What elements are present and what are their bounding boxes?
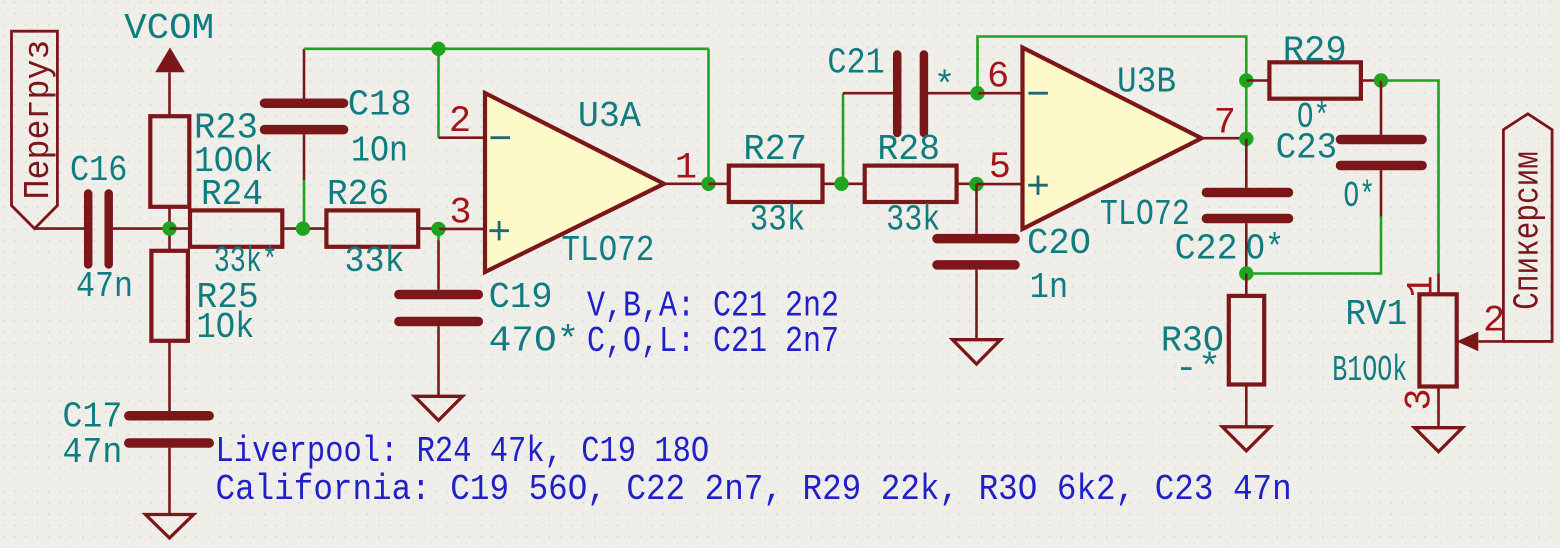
capacitor C21	[827, 43, 955, 134]
wire RV1 to ground	[1437, 387, 1440, 428]
svg-text:C23: C23	[1276, 128, 1338, 169]
pin wire C18 top	[303, 49, 306, 99]
svg-text:TLO72: TLO72	[561, 230, 654, 271]
feedback wire U3B (green)	[978, 37, 1247, 139]
svg-text:33k: 33k	[886, 199, 940, 240]
svg-text:B1OOk: B1OOk	[1332, 350, 1407, 391]
svg-text:3: 3	[1400, 388, 1442, 410]
wire node F to C20	[975, 184, 978, 234]
svg-text:C,O,L: C21 2n7: C,O,L: C21 2n7	[587, 321, 839, 362]
U3A output stub	[664, 183, 709, 186]
capacitor C17	[63, 397, 210, 473]
wire R26 to node C	[418, 227, 438, 230]
wire C17 to ground	[168, 448, 171, 515]
ground under C20	[953, 340, 1001, 364]
node C junction	[431, 222, 445, 236]
svg-text:2: 2	[1483, 301, 1505, 343]
svg-text:VCOM: VCOM	[124, 8, 214, 49]
wire node D up to C21 (green)	[842, 93, 844, 184]
svg-text:47O*: 47O*	[489, 321, 580, 362]
wire node G to C22	[1245, 139, 1248, 188]
capacitor C18	[265, 84, 412, 171]
wire node I to RV1 (green)	[1381, 81, 1439, 274]
svg-text:C22: C22	[1175, 229, 1238, 270]
resistor R30	[1161, 296, 1264, 389]
op-amp U3B	[1023, 48, 1202, 236]
node B junction	[296, 221, 310, 235]
wire C23 to bottom rail (green)	[1246, 217, 1381, 274]
wire R30 to ground	[1245, 385, 1248, 427]
svg-text:1Ok: 1Ok	[197, 307, 255, 348]
wire C20 to ground	[975, 270, 978, 340]
node F junction	[969, 177, 983, 191]
capacitor C20	[937, 223, 1091, 308]
wire C22 to node J	[1245, 223, 1248, 273]
wire node I to C23	[1380, 81, 1383, 135]
svg-text:47n: 47n	[76, 266, 133, 307]
resistor R27	[729, 129, 823, 240]
ground under R30	[1222, 427, 1270, 451]
ground under RV1	[1415, 428, 1463, 452]
pin 5 stub	[977, 183, 1023, 186]
resistor R26	[326, 174, 418, 282]
ground under C17	[146, 515, 194, 539]
wire C18 to node B (green)	[303, 180, 306, 229]
resistor R28	[865, 129, 957, 240]
feedback wire top (green)	[304, 47, 709, 50]
U3B output stub	[1202, 137, 1247, 140]
svg-text:2: 2	[449, 101, 471, 143]
svg-text:O*: O*	[1343, 176, 1375, 217]
svg-text:R29: R29	[1283, 31, 1347, 72]
svg-text:O*: O*	[1246, 229, 1284, 270]
wire C19 to ground	[437, 326, 440, 396]
wire feedback down to output (green)	[707, 49, 710, 184]
wire node A to R24	[170, 227, 191, 230]
power symbol VCOM	[124, 8, 214, 116]
svg-text:Спикерсим: Спикерсим	[1508, 151, 1549, 310]
svg-text:3: 3	[449, 192, 471, 234]
svg-text:1n: 1n	[1030, 267, 1068, 308]
svg-text:47n: 47n	[63, 432, 123, 473]
wire C21 right to node E	[928, 92, 978, 95]
svg-text:C19: C19	[489, 277, 553, 318]
svg-text:1On: 1On	[351, 131, 408, 172]
pin wire C23 bottom	[1380, 170, 1383, 216]
svg-text:C21: C21	[827, 43, 884, 84]
svg-text:1: 1	[1402, 275, 1444, 297]
wire R29 to node I	[1361, 79, 1381, 82]
svg-text:5: 5	[989, 147, 1011, 189]
wire R27 to R28	[823, 183, 865, 186]
svg-text:R27: R27	[743, 129, 807, 170]
potentiometer RV1	[1332, 274, 1552, 392]
svg-text:R24: R24	[201, 174, 263, 215]
resistor R29	[1269, 31, 1361, 139]
svg-text:-*: -*	[1175, 348, 1222, 389]
capacitor C22	[1175, 193, 1289, 270]
wire label to C16	[35, 227, 85, 230]
wire node C to C19	[437, 229, 440, 241]
pin wire C18 bottom	[303, 134, 306, 180]
svg-text:RV1: RV1	[1345, 294, 1407, 335]
node E junction	[970, 86, 984, 100]
wire node J to R30	[1245, 274, 1248, 296]
svg-text:R26: R26	[327, 174, 389, 215]
wire C16 to node A	[113, 227, 170, 230]
capacitor C16	[70, 150, 133, 307]
svg-text:Перегруз: Перегруз	[18, 40, 59, 200]
svg-text:U3B: U3B	[1117, 62, 1176, 103]
wire R28 to node F	[957, 183, 977, 186]
resistor R23	[150, 108, 273, 207]
pin 6 stub	[978, 92, 1023, 95]
node G junction (pin 7)	[1239, 132, 1253, 146]
svg-text:R28: R28	[877, 129, 940, 170]
pin 3 stub	[439, 228, 486, 231]
wire to R29	[1246, 79, 1269, 82]
svg-text:6: 6	[987, 57, 1009, 99]
svg-text:C16: C16	[70, 150, 127, 191]
hierarchical label Спикерсим	[1503, 114, 1552, 342]
output junction	[701, 177, 715, 191]
wire R24 to R26	[282, 227, 326, 230]
capacitor C23	[1276, 128, 1423, 217]
node D junction	[834, 177, 848, 191]
svg-text:33k*: 33k*	[214, 241, 278, 282]
junction on feedback	[431, 42, 445, 56]
pin 2 stub	[439, 136, 486, 139]
resistor R25	[151, 251, 258, 348]
hierarchical label Перегруз	[12, 31, 60, 228]
wire R25 to C17	[168, 341, 171, 411]
svg-text:C18: C18	[348, 84, 412, 125]
svg-text:*: *	[934, 66, 956, 107]
svg-text:Liverpool: R24 47k, C19 18O: Liverpool: R24 47k, C19 18O	[216, 431, 710, 472]
node J junction	[1239, 266, 1253, 280]
svg-text:California: C19 56O, C22 2n7,: California: C19 56O, C22 2n7, R29 22k, R…	[216, 469, 1292, 510]
svg-text:C2O: C2O	[1027, 223, 1091, 264]
svg-text:33k: 33k	[750, 199, 806, 240]
wire feedback down to pin 2 (green)	[437, 49, 440, 138]
node A junction	[162, 221, 176, 235]
resistor R24	[190, 174, 282, 282]
ground under C19	[415, 396, 463, 420]
node H junction (R29 left)	[1239, 73, 1253, 87]
svg-text:U3A: U3A	[578, 96, 641, 137]
capacitor C19	[399, 277, 579, 362]
wire to R27	[709, 183, 729, 186]
svg-text:33k: 33k	[345, 241, 405, 282]
wire to C21 left	[843, 92, 893, 95]
wire R23 to node A to R25	[168, 207, 171, 251]
op-amp U3A	[485, 93, 664, 272]
node I junction (R29 right)	[1374, 73, 1388, 87]
